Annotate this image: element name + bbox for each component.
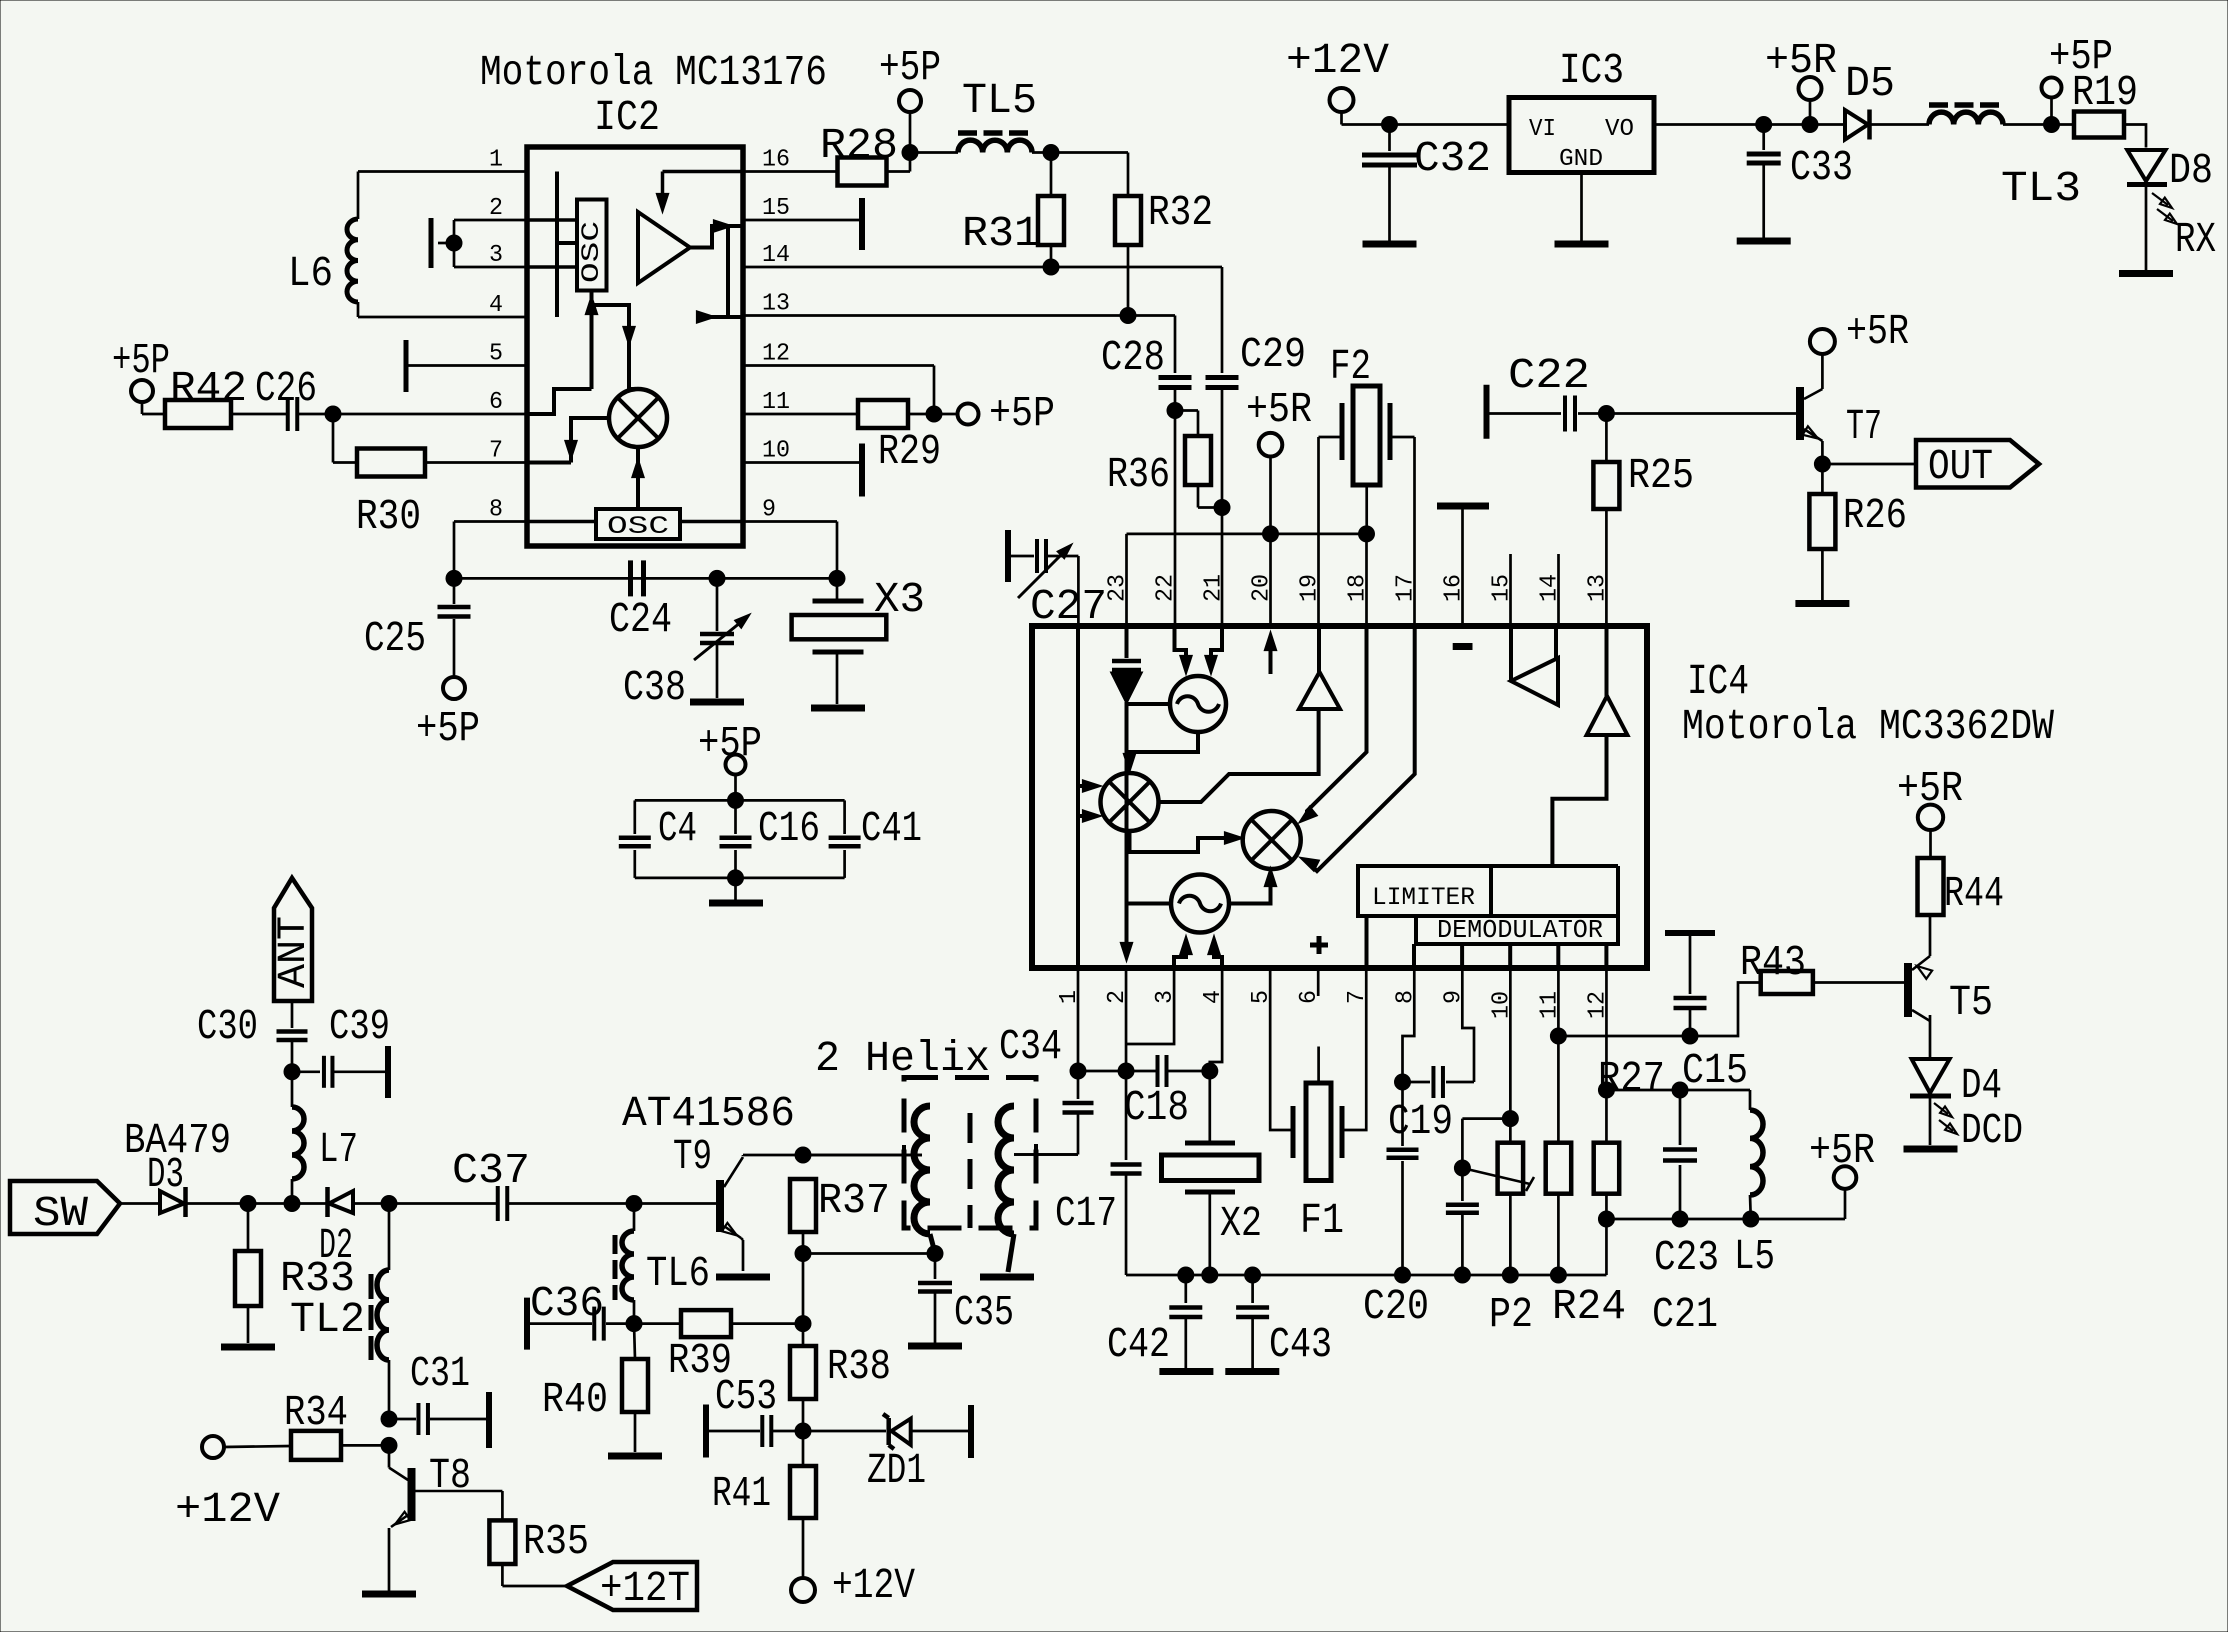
svg-text:R37: R37	[818, 1176, 890, 1225]
svg-text:F2: F2	[1330, 342, 1371, 391]
svg-text:C39: C39	[329, 1002, 390, 1051]
svg-text:+5P: +5P	[698, 719, 762, 768]
svg-text:TL3: TL3	[2001, 164, 2081, 213]
svg-text:T5: T5	[1949, 978, 1993, 1027]
svg-text:8: 8	[489, 497, 503, 524]
svg-text:1: 1	[489, 147, 503, 174]
svg-text:+5R: +5R	[1246, 385, 1312, 434]
svg-text:+12V: +12V	[1286, 36, 1389, 85]
svg-text:C34: C34	[999, 1022, 1062, 1071]
svg-text:13: 13	[762, 291, 790, 318]
svg-text:R41: R41	[712, 1469, 771, 1518]
svg-text:C24: C24	[609, 595, 672, 644]
svg-text:R36: R36	[1107, 450, 1170, 499]
svg-text:R42: R42	[170, 364, 247, 413]
svg-text:T7: T7	[1846, 402, 1882, 451]
svg-text:ANT: ANT	[272, 916, 317, 988]
svg-text:IC2: IC2	[594, 93, 660, 142]
svg-text:15: 15	[762, 195, 790, 222]
svg-text:C33: C33	[1790, 143, 1853, 192]
svg-text:+5P: +5P	[879, 43, 941, 92]
svg-text:C42: C42	[1107, 1320, 1170, 1369]
svg-text:14: 14	[762, 242, 790, 269]
svg-text:C19: C19	[1388, 1097, 1453, 1146]
svg-text:C22: C22	[1508, 351, 1590, 400]
svg-text:D5: D5	[1845, 59, 1895, 108]
svg-text:2 Helix: 2 Helix	[815, 1034, 990, 1083]
svg-text:RX: RX	[2175, 215, 2216, 264]
svg-text:D8: D8	[2169, 146, 2213, 195]
svg-text:C43: C43	[1269, 1320, 1332, 1369]
svg-text:TL5: TL5	[962, 76, 1037, 125]
svg-text:R31: R31	[962, 209, 1040, 258]
svg-text:R32: R32	[1148, 188, 1213, 237]
svg-text:5: 5	[489, 341, 503, 368]
svg-text:P2: P2	[1489, 1290, 1533, 1339]
svg-text:R29: R29	[878, 427, 941, 476]
svg-text:IC4: IC4	[1687, 657, 1749, 706]
svg-text:C37: C37	[452, 1146, 530, 1195]
svg-text:LIMITER: LIMITER	[1372, 883, 1475, 912]
svg-text:C36: C36	[530, 1279, 604, 1328]
svg-text:C26: C26	[255, 364, 317, 413]
svg-text:C29: C29	[1240, 330, 1306, 379]
svg-text:21: 21	[1201, 574, 1228, 602]
svg-text:C28: C28	[1101, 333, 1165, 382]
svg-text:22: 22	[1153, 574, 1180, 602]
svg-text:OSC: OSC	[607, 512, 669, 541]
svg-text:C17: C17	[1055, 1189, 1117, 1238]
svg-text:+12V: +12V	[832, 1561, 915, 1610]
svg-text:T9: T9	[673, 1132, 712, 1181]
svg-text:R26: R26	[1843, 491, 1907, 540]
svg-text:R38: R38	[827, 1342, 891, 1391]
svg-text:L5: L5	[1734, 1232, 1775, 1281]
svg-text:DEMODULATOR: DEMODULATOR	[1437, 915, 1603, 945]
svg-text:C32: C32	[1414, 134, 1491, 183]
svg-text:C16: C16	[758, 804, 820, 853]
svg-text:DCD: DCD	[1961, 1106, 2023, 1155]
svg-text:C4: C4	[658, 804, 697, 853]
svg-text:+5P: +5P	[112, 336, 170, 385]
svg-text:R43: R43	[1740, 938, 1806, 987]
svg-text:TL2: TL2	[290, 1295, 365, 1344]
svg-text:12: 12	[762, 341, 790, 368]
svg-text:L7: L7	[319, 1125, 358, 1174]
svg-text:C30: C30	[197, 1002, 258, 1051]
svg-text:VO: VO	[1605, 116, 1634, 143]
svg-text:C31: C31	[410, 1349, 470, 1398]
svg-text:L6: L6	[288, 249, 333, 298]
svg-text:9: 9	[762, 497, 776, 524]
svg-text:R27: R27	[1598, 1054, 1665, 1103]
svg-text:C20: C20	[1363, 1282, 1429, 1331]
svg-text:C23: C23	[1654, 1233, 1719, 1282]
svg-text:BA479: BA479	[124, 1116, 231, 1165]
svg-text:R24: R24	[1552, 1282, 1626, 1331]
svg-text:7: 7	[489, 438, 503, 465]
svg-text:+5P: +5P	[989, 389, 1055, 438]
svg-text:+5P: +5P	[416, 704, 480, 753]
svg-text:+5R: +5R	[1765, 36, 1837, 85]
svg-text:4: 4	[489, 292, 503, 319]
svg-text:R34: R34	[284, 1388, 348, 1437]
svg-text:C53: C53	[715, 1372, 777, 1421]
svg-text:R44: R44	[1944, 869, 2004, 918]
svg-text:C27: C27	[1030, 582, 1107, 631]
svg-text:R19: R19	[2072, 68, 2138, 117]
svg-text:TL6: TL6	[646, 1249, 710, 1298]
svg-text:C41: C41	[861, 804, 922, 853]
svg-text:+5R: +5R	[1846, 307, 1909, 356]
svg-text:3: 3	[489, 242, 503, 269]
svg-text:R35: R35	[523, 1517, 589, 1566]
svg-text:+5R: +5R	[1897, 764, 1963, 813]
svg-text:C35: C35	[954, 1288, 1014, 1337]
svg-text:R25: R25	[1628, 451, 1694, 500]
svg-text:+12V: +12V	[175, 1485, 280, 1534]
svg-text:C18: C18	[1124, 1083, 1189, 1132]
svg-text:C21: C21	[1652, 1290, 1718, 1339]
svg-text:VI: VI	[1529, 116, 1556, 143]
svg-text:F1: F1	[1300, 1196, 1344, 1245]
svg-text:SW: SW	[33, 1189, 88, 1238]
svg-text:C25: C25	[364, 614, 426, 663]
svg-text:10: 10	[762, 438, 790, 465]
svg-text:R40: R40	[542, 1375, 608, 1424]
svg-text:Motorola MC13176: Motorola MC13176	[480, 48, 827, 97]
svg-text:C15: C15	[1682, 1046, 1748, 1095]
svg-text:IC3: IC3	[1559, 46, 1624, 95]
svg-text:Motorola MC3362DW: Motorola MC3362DW	[1682, 702, 2054, 751]
svg-text:6: 6	[489, 389, 503, 416]
svg-text:+12T: +12T	[600, 1564, 690, 1613]
svg-text:16: 16	[762, 147, 790, 174]
svg-text:R28: R28	[820, 121, 898, 170]
svg-text:R30: R30	[356, 492, 421, 541]
svg-text:D4: D4	[1961, 1061, 2002, 1110]
svg-text:+5R: +5R	[1809, 1126, 1875, 1175]
svg-text:GND: GND	[1559, 146, 1603, 173]
svg-text:2: 2	[489, 195, 503, 222]
svg-text:X2: X2	[1220, 1199, 1262, 1248]
svg-text:T8: T8	[429, 1451, 471, 1500]
svg-text:C38: C38	[623, 663, 686, 712]
svg-text:ZD1: ZD1	[867, 1446, 926, 1495]
svg-text:13: 13	[1585, 574, 1612, 602]
svg-text:X3: X3	[874, 575, 925, 624]
svg-text:OSC: OSC	[577, 221, 606, 283]
svg-text:11: 11	[762, 389, 790, 416]
svg-text:OUT: OUT	[1928, 442, 1993, 491]
svg-text:AT41586: AT41586	[622, 1089, 795, 1138]
